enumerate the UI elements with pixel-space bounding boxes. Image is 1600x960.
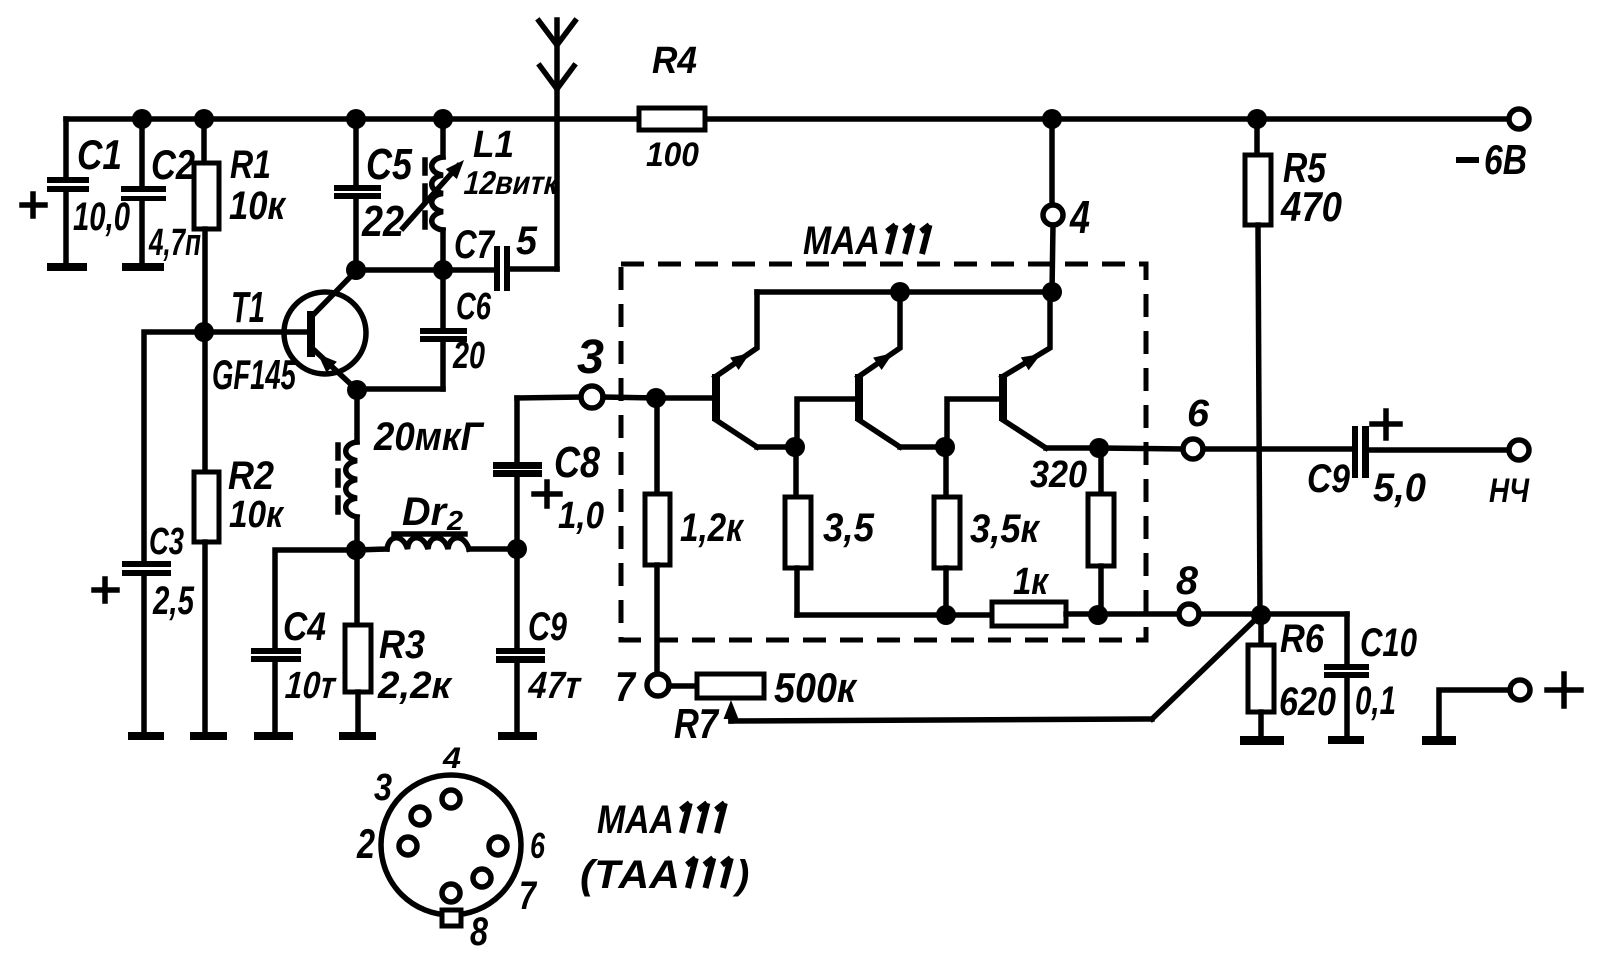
node R5/R6/C10	[1251, 605, 1271, 625]
connector hole 8	[442, 884, 460, 902]
capacitor C3 (electrolytic)	[122, 561, 171, 733]
label Dr2	[394, 490, 465, 537]
svg-text:7: 7	[615, 664, 637, 710]
svg-text:3: 3	[374, 767, 392, 809]
svg-text:12витк: 12витк	[460, 164, 563, 201]
ground R2	[190, 732, 227, 740]
antenna	[539, 20, 575, 269]
capacitor C10	[1261, 614, 1369, 737]
svg-text:МАА: МАА	[597, 796, 674, 841]
svg-text:6: 6	[530, 825, 545, 866]
node Qa emitter	[785, 437, 805, 457]
wire T1 base lead	[204, 329, 311, 335]
svg-text:20: 20	[452, 334, 485, 377]
connector key notch	[442, 910, 461, 926]
wire top supply rail (left of R4)	[66, 116, 639, 122]
svg-text:НЧ: НЧ	[1489, 471, 1530, 509]
svg-text:3,5: 3,5	[823, 506, 875, 551]
resistor 1,2к	[645, 398, 670, 674]
node pin3/1,2к	[646, 388, 666, 408]
transistor T1 GF145	[284, 271, 366, 390]
node rail/C2	[132, 109, 152, 129]
node rail/C5	[346, 109, 366, 129]
svg-text:500к: 500к	[774, 665, 858, 711]
svg-text:1,2к: 1,2к	[680, 505, 745, 550]
terminal -6V	[1509, 109, 1529, 129]
plus sign supply	[1547, 674, 1581, 706]
node T1 base	[194, 322, 214, 342]
wire pin 4 lower	[1052, 225, 1053, 292]
svg-text:8: 8	[470, 909, 489, 954]
wire IC bottom bus right	[1066, 611, 1180, 617]
node T1 emitter	[347, 380, 367, 400]
svg-text:1,0: 1,0	[558, 494, 604, 537]
ground C4	[254, 732, 293, 740]
wire pin 4 upper	[1049, 119, 1055, 205]
plus sign C3	[94, 579, 117, 601]
connector hole 2	[399, 837, 417, 855]
ground R3	[339, 732, 376, 740]
svg-text:2,5: 2,5	[152, 579, 194, 623]
svg-text:5,0: 5,0	[1373, 466, 1426, 510]
inductor Dr2	[356, 538, 517, 550]
connector hole 7	[473, 869, 491, 887]
svg-text:Dr: Dr	[402, 490, 449, 534]
node rail/pin4	[1042, 109, 1062, 129]
svg-text:C6: C6	[456, 286, 491, 328]
svg-text:10т: 10т	[281, 665, 341, 707]
wire wiper diagonal to pin8 node	[1152, 616, 1259, 719]
inductor 20мкГ	[338, 390, 357, 550]
svg-text:C9: C9	[1307, 456, 1350, 500]
connector hole 6	[489, 837, 507, 855]
node bus/Qb	[890, 282, 910, 302]
svg-text:22: 22	[361, 196, 404, 245]
terminal НЧ	[1509, 440, 1529, 460]
ground R6	[1240, 736, 1284, 745]
terminal + supply	[1439, 680, 1530, 737]
svg-text:2,2к: 2,2к	[377, 664, 453, 707]
ground C9	[498, 732, 537, 740]
pin 7	[647, 674, 669, 696]
capacitor C2	[121, 119, 166, 264]
capacitor C6	[357, 270, 467, 389]
svg-text:2: 2	[356, 820, 375, 867]
ground C10	[1328, 736, 1364, 744]
potentiometer R7 500к	[697, 674, 764, 721]
wire IC bottom bus left	[797, 612, 992, 618]
wire Qc emitter to node	[1046, 445, 1099, 451]
wire tank bottom	[356, 267, 443, 273]
resistor R3	[345, 550, 371, 733]
svg-text:C2: C2	[151, 142, 195, 189]
connector hole 3	[411, 807, 429, 825]
svg-text:T1: T1	[231, 282, 265, 332]
connector MAA111 pinout circle	[381, 775, 521, 915]
wire base Qa	[656, 395, 713, 401]
wire riser to Qc base	[947, 399, 1000, 447]
wire top supply rail (right of R4)	[705, 116, 1509, 122]
wire base to C3	[144, 332, 204, 562]
pin 4	[1043, 205, 1063, 225]
resistor R6	[1248, 615, 1274, 737]
svg-text:МАА: МАА	[803, 217, 880, 262]
wire pin 3 to base	[603, 397, 656, 398]
plus sign C9 output	[1372, 411, 1400, 438]
svg-text:10к: 10к	[229, 493, 285, 536]
svg-text:8: 8	[1176, 559, 1199, 603]
wire Qa emitter to node	[757, 444, 795, 450]
ground C1	[47, 263, 87, 271]
svg-text:0,1: 0,1	[1355, 679, 1396, 723]
node detector	[346, 540, 366, 560]
svg-text:C10: C10	[1360, 620, 1417, 665]
svg-text:R2: R2	[228, 454, 274, 498]
ground + terminal	[1422, 736, 1456, 745]
resistor 3,5	[785, 447, 811, 615]
transistor Qa	[712, 292, 757, 447]
resistor R2	[194, 332, 219, 733]
ground C3	[128, 732, 164, 740]
resistor 320	[1088, 448, 1114, 615]
svg-text:C4: C4	[283, 604, 326, 648]
wire riser to Qb base	[797, 399, 856, 447]
svg-text:R6: R6	[1280, 616, 1324, 661]
node Qc emitter	[1089, 438, 1109, 458]
svg-text:620: 620	[1279, 678, 1336, 723]
node tank right	[433, 260, 453, 280]
node rail/R5	[1247, 109, 1267, 129]
wire pin 8 to node	[1199, 611, 1261, 617]
ground C2	[122, 263, 164, 271]
resistor R4	[639, 108, 705, 130]
node Dr2/C8/C9	[507, 539, 527, 559]
svg-text:3: 3	[577, 330, 604, 384]
wire collector bus	[757, 289, 1052, 295]
pin 8	[1179, 604, 1199, 624]
inductor L1 (variable)	[403, 119, 470, 270]
resistor 3,5к	[934, 447, 960, 615]
svg-text:10,0: 10,0	[73, 195, 130, 240]
svg-text:GF145: GF145	[212, 351, 297, 398]
transistor Qc	[999, 292, 1050, 448]
capacitor C8 (electrolytic)	[493, 398, 542, 549]
capacitor C9 output 5,0	[1352, 426, 1509, 478]
svg-text:4: 4	[1069, 192, 1090, 243]
svg-text:C5: C5	[366, 140, 413, 189]
svg-text:L1: L1	[473, 123, 514, 166]
node tank left	[346, 260, 366, 280]
svg-text:470: 470	[1280, 184, 1342, 231]
svg-text:C3: C3	[149, 521, 184, 563]
svg-text:4: 4	[442, 741, 461, 775]
svg-text:100: 100	[646, 135, 699, 173]
capacitor C7	[443, 246, 557, 291]
node Qb emitter	[935, 437, 955, 457]
node rail/R1	[194, 109, 214, 129]
pin 3	[581, 386, 603, 408]
connector hole 4	[442, 790, 460, 808]
wire C8 to pin 3	[517, 397, 581, 398]
wire R7 wiper run	[731, 719, 1152, 721]
svg-text:R4: R4	[652, 39, 697, 82]
wire Qb emitter to node	[900, 444, 945, 450]
IC dashed box MAA111	[621, 264, 1146, 640]
svg-text:20мкГ: 20мкГ	[373, 415, 484, 460]
plus sign C8	[534, 482, 560, 506]
capacitor C9 47т	[496, 549, 545, 733]
resistor 1к	[992, 602, 1066, 626]
svg-text:R7: R7	[674, 701, 719, 748]
plus sign C1	[22, 194, 45, 216]
svg-text:10к: 10к	[229, 183, 287, 228]
label -6V	[1456, 138, 1527, 184]
resistor R1	[194, 119, 219, 332]
wire to C4	[275, 550, 356, 648]
svg-text:6В: 6В	[1484, 138, 1527, 184]
svg-text:320: 320	[1030, 452, 1087, 495]
capacitor C1 (electrolytic)	[47, 119, 89, 264]
svg-text:C7: C7	[454, 222, 496, 267]
resistor R5	[1245, 119, 1271, 614]
svg-text:C9: C9	[528, 604, 567, 649]
svg-text:(ТАА: (ТАА	[580, 852, 680, 897]
svg-text:R3: R3	[379, 623, 425, 667]
svg-text:C8: C8	[554, 438, 601, 487]
svg-text:R1: R1	[230, 142, 271, 187]
wire Qc emitter to pin 6	[1099, 448, 1182, 449]
pin 6	[1183, 439, 1203, 459]
wire pin 6 to C9	[1203, 446, 1352, 452]
wire pin 7 to R7	[669, 683, 697, 689]
node bus/pin4	[1042, 282, 1062, 302]
svg-text:47т: 47т	[524, 664, 586, 706]
svg-text:7: 7	[519, 873, 538, 918]
svg-text:5: 5	[516, 219, 538, 263]
transistor Qb	[855, 292, 900, 447]
svg-text:6: 6	[1187, 393, 1209, 435]
svg-text:C1: C1	[77, 132, 122, 179]
capacitor C5	[334, 119, 381, 270]
capacitor C4	[251, 648, 301, 733]
svg-text:1к: 1к	[1013, 560, 1050, 603]
node bus/3,5к	[936, 605, 956, 625]
svg-text:3,5к: 3,5к	[970, 506, 1041, 551]
node bus/320	[1088, 605, 1108, 625]
node rail/L1	[433, 109, 453, 129]
